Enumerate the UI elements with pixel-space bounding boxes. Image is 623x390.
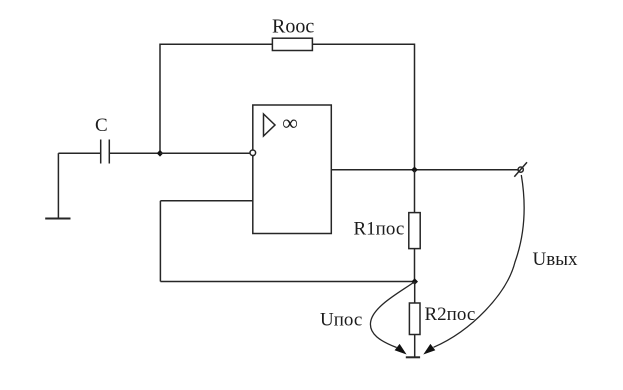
svg-text:C: C [95,115,108,136]
node C (divider junction) [411,278,418,285]
op-amp U1 triangle symbol [264,114,276,136]
wire: op-amp output to terminal [331,169,518,171]
wire: top right horizontal and right vertical down to output node [312,44,414,170]
wire: capacitor to node A [109,152,160,154]
wire: node B down to R1pos [414,170,416,213]
wire: non-inverting input [160,200,252,202]
capacitor C plates [101,140,110,164]
capacitor C left wire [58,152,100,154]
wire: node C to R2pos [414,282,416,304]
node A (junction capacitor / top wire / op-amp input) [157,150,164,157]
ground (bottom) [406,356,420,358]
wire: R2pos to ground [414,335,416,358]
wire: node A to inverting input [160,152,250,154]
Uvyh arrowhead [423,344,435,355]
Upos arrowhead [395,344,407,355]
wire: feedback bottom horizontal to node C [160,281,414,283]
wire: left vertical to ground [57,153,59,218]
output terminal circle with slash [514,162,527,176]
svg-text:∞: ∞ [282,110,298,135]
svg-text:Rooc: Rooc [272,16,314,38]
svg-text:R2пос: R2пос [425,304,476,325]
op-amp U1 body [253,105,331,234]
resistor R1pos [409,213,420,249]
svg-text:Uвых: Uвых [533,249,578,270]
svg-text:Uпос: Uпос [320,310,362,331]
Upos annotation curve [370,282,414,348]
op-amp U1 inverting input circle [250,150,256,156]
svg-text:R1пос: R1пос [354,219,405,240]
Uvyh annotation curve [434,175,525,347]
node B (output junction) [411,167,418,174]
ground (left) [45,218,70,220]
resistor R2pos [409,303,420,335]
resistor Rooc [272,38,312,50]
wire: R1pos to node C [414,249,416,282]
wire: top feedback horizontal [160,44,272,153]
wire: feedback left vertical [159,201,161,282]
